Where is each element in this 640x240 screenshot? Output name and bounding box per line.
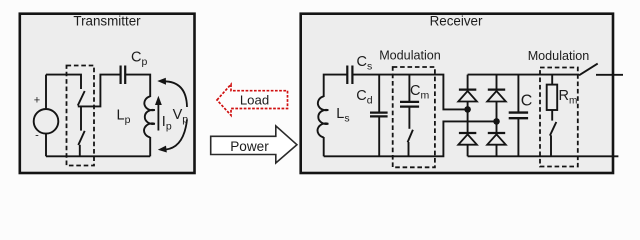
wire right leg mid xyxy=(496,121,498,133)
wire receiver top rail xyxy=(352,75,467,110)
wire source top xyxy=(45,75,47,109)
switch S2 top stub xyxy=(80,106,82,130)
inductor Ls lower wire xyxy=(323,137,325,156)
inductor Lp coil xyxy=(144,96,155,137)
capacitor Cs plates xyxy=(347,66,352,85)
svg-text:Transmitter: Transmitter xyxy=(73,14,141,29)
wire output top stub xyxy=(596,74,623,76)
power arrow (black outline, pointing right) xyxy=(211,126,297,163)
diode D2 (lower left) xyxy=(458,133,477,156)
switch S3 top stub xyxy=(408,107,410,129)
switch S4 top stub xyxy=(551,110,553,121)
wire half-bridge mid rail xyxy=(78,75,120,107)
svg-text:+: + xyxy=(34,95,40,107)
switch S2 blade xyxy=(78,131,84,145)
modulation dashed box 1 xyxy=(393,67,435,167)
capacitor Cm branch top xyxy=(408,75,410,102)
node dot AC1 xyxy=(464,106,471,113)
bridge bottom rail / dc rail xyxy=(468,155,619,157)
inverter dashed box xyxy=(67,66,95,166)
capacitor C branch bottom xyxy=(517,118,519,156)
capacitor Cd plates xyxy=(370,113,388,117)
node dot AC2 xyxy=(493,118,500,125)
inductor Lp lower wire xyxy=(149,137,151,156)
svg-text:Receiver: Receiver xyxy=(430,14,483,29)
load arrow (red dashed, pointing left) xyxy=(217,84,288,115)
voltage arc Vp upper xyxy=(163,81,187,107)
voltage arc Vp lower xyxy=(166,120,188,150)
current arrow Ip xyxy=(157,104,159,131)
resistor Rm body xyxy=(547,85,558,110)
transmitter enclosure box xyxy=(20,14,195,173)
diode D3 (upper right) xyxy=(487,75,506,122)
svg-text:Power: Power xyxy=(230,139,269,154)
resistor Rm top stub xyxy=(551,75,553,85)
switch S1 blade xyxy=(78,91,85,106)
svg-text:-: - xyxy=(35,130,39,142)
wire source bottom xyxy=(45,134,47,157)
capacitor Cd branch bottom xyxy=(378,116,380,156)
svg-text:Load: Load xyxy=(240,93,269,108)
switch S3 bottom stub xyxy=(408,142,410,156)
svg-text:Modulation: Modulation xyxy=(528,49,590,63)
svg-text:C: C xyxy=(521,93,533,110)
switch S5 (output, horizontal) blade xyxy=(579,64,598,76)
wire top rail left xyxy=(46,75,81,89)
wire top rail right xyxy=(125,75,150,97)
modulation dashed box 2 xyxy=(540,68,578,167)
diode D1 (upper left) xyxy=(458,75,477,110)
capacitor Cm plates xyxy=(400,102,419,107)
switch S3 blade xyxy=(408,130,413,143)
svg-text:Modulation: Modulation xyxy=(379,49,441,63)
inductor Ls upper wire xyxy=(324,75,348,97)
wire bottom rail xyxy=(46,155,150,157)
voltage source V1 xyxy=(34,109,59,134)
wire left leg mid xyxy=(467,109,469,133)
inductor Ls coil xyxy=(318,96,329,137)
capacitor Cp plates xyxy=(121,66,126,85)
switch S4 blade xyxy=(550,122,556,136)
switch S4 bottom stub xyxy=(550,135,552,156)
wire receiver bottom rail (tank side) xyxy=(324,121,497,156)
capacitor C plates xyxy=(509,113,528,119)
bridge top rail xyxy=(468,74,579,76)
capacitor Cd branch top xyxy=(378,75,380,113)
receiver enclosure box xyxy=(301,14,613,173)
switch S2 bottom stub xyxy=(79,145,81,157)
capacitor C branch top xyxy=(517,75,519,113)
diode D4 (lower right) xyxy=(487,133,506,156)
